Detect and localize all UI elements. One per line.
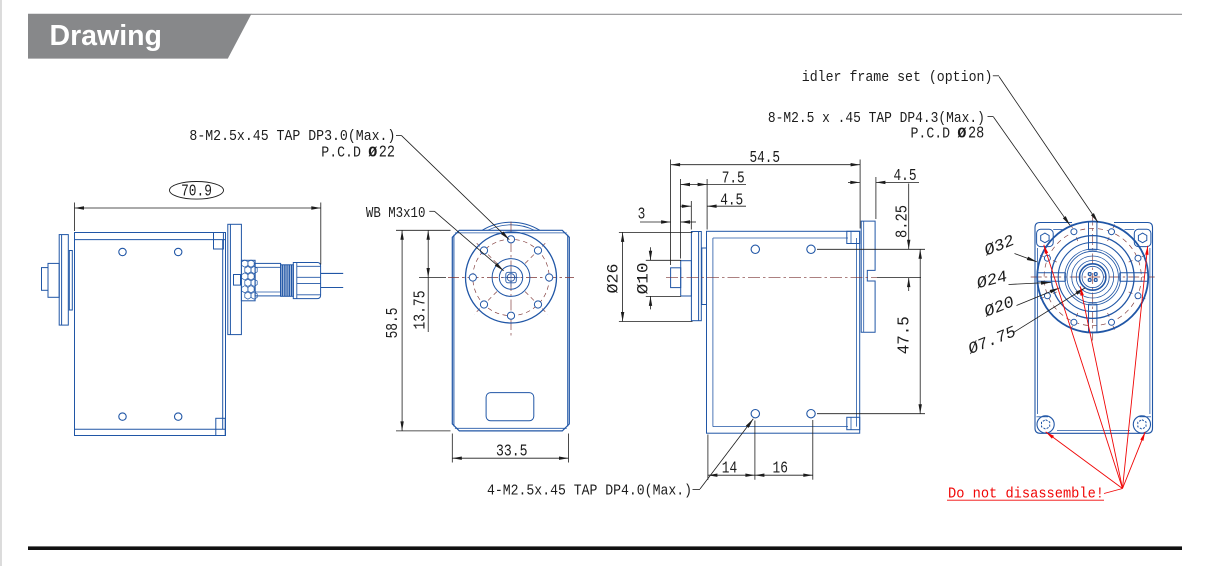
- svg-text:7.5: 7.5: [722, 169, 745, 188]
- svg-text:P.C.D: P.C.D: [911, 125, 951, 142]
- svg-text:8.25: 8.25: [893, 205, 912, 238]
- svg-text:22: 22: [379, 143, 395, 162]
- svg-text:28: 28: [968, 123, 984, 142]
- svg-text:70.9: 70.9: [181, 181, 212, 200]
- svg-text:8-M2.5 x .45 TAP DP4.3(Max.): 8-M2.5 x .45 TAP DP4.3(Max.): [768, 110, 985, 127]
- svg-text:Ø: Ø: [368, 145, 377, 162]
- svg-text:58.5: 58.5: [383, 308, 402, 339]
- svg-text:14: 14: [722, 458, 737, 477]
- svg-text:Ø: Ø: [957, 125, 966, 142]
- svg-text:Ø26: Ø26: [604, 264, 622, 294]
- svg-text:P.C.D: P.C.D: [321, 145, 361, 162]
- svg-text:3: 3: [638, 205, 646, 224]
- svg-text:4-M2.5x.45 TAP DP4.0(Max.): 4-M2.5x.45 TAP DP4.0(Max.): [487, 482, 692, 499]
- svg-text:Ø10: Ø10: [634, 262, 652, 294]
- svg-text:Ø20: Ø20: [981, 293, 1018, 322]
- svg-text:47.5: 47.5: [895, 316, 914, 354]
- svg-text:Drawing: Drawing: [50, 20, 162, 52]
- svg-text:16: 16: [773, 458, 788, 477]
- svg-text:4.5: 4.5: [894, 166, 917, 185]
- svg-text:Ø7.75: Ø7.75: [965, 323, 1019, 359]
- svg-text:Ø32: Ø32: [981, 232, 1018, 261]
- svg-text:54.5: 54.5: [750, 148, 781, 167]
- svg-text:8-M2.5x.45 TAP DP3.0(Max.): 8-M2.5x.45 TAP DP3.0(Max.): [189, 128, 395, 145]
- svg-text:WB M3x10: WB M3x10: [366, 205, 426, 222]
- svg-text:idler frame set (option): idler frame set (option): [802, 69, 993, 86]
- svg-text:33.5: 33.5: [496, 442, 528, 461]
- svg-text:Ø24: Ø24: [974, 268, 1010, 294]
- svg-text:13.75: 13.75: [411, 291, 430, 330]
- svg-text:4.5: 4.5: [720, 190, 743, 209]
